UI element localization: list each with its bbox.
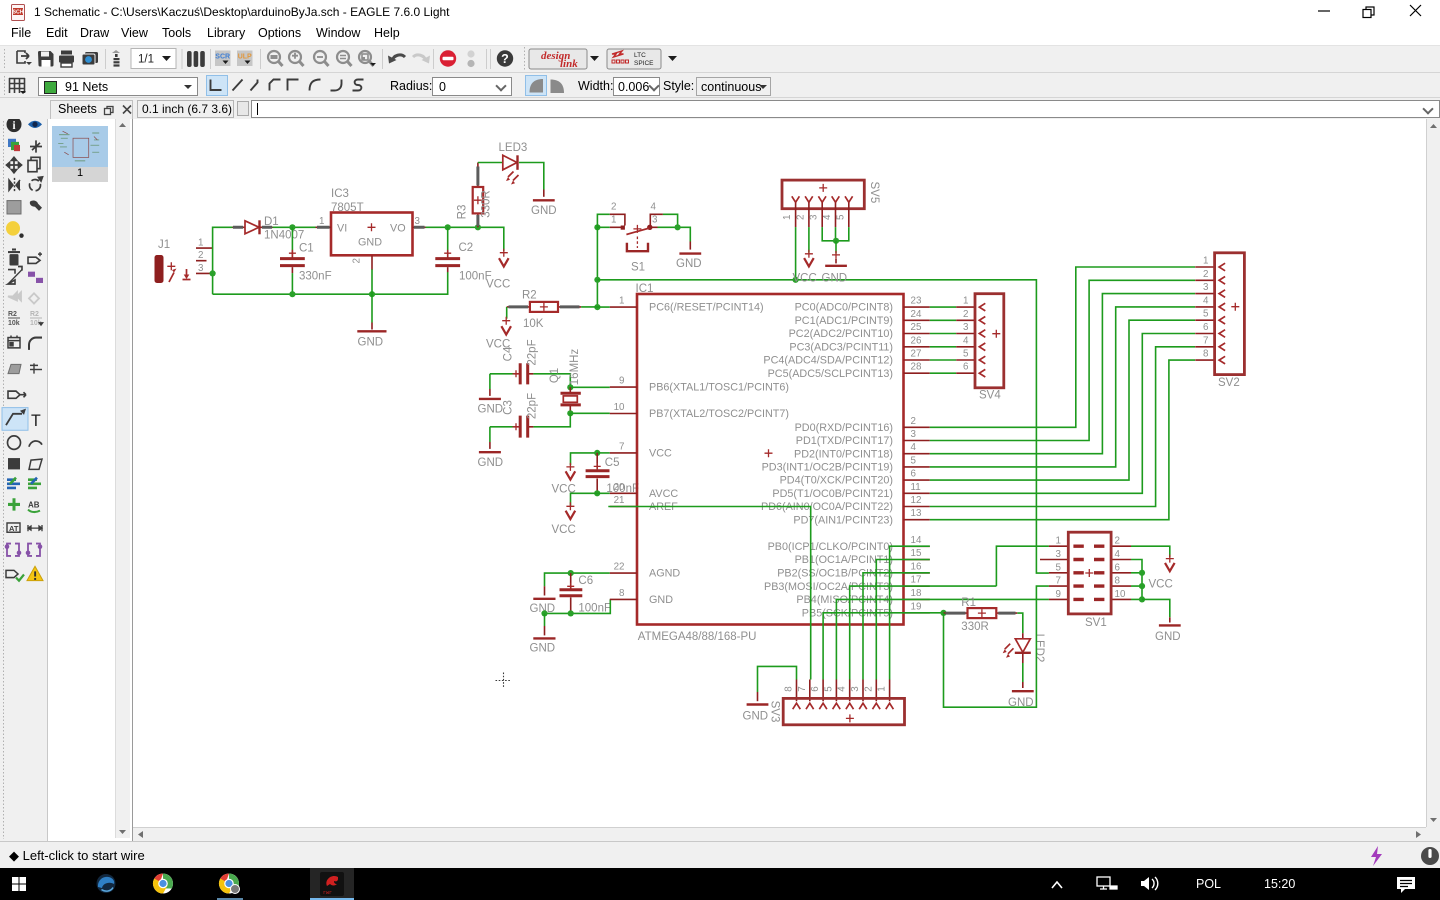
svg-text:SPICE: SPICE [634, 60, 654, 67]
svg-text:?: ? [501, 52, 509, 66]
node PB5/R1 junction [940, 610, 946, 616]
svg-text:8: 8 [1203, 349, 1209, 360]
grid icon [9, 78, 25, 93]
arc dir buttons [526, 76, 547, 96]
node AVCC junction [594, 490, 600, 496]
wire PD7 to SV2 pin8 [930, 360, 1195, 520]
svg-text:16MHz: 16MHz [569, 349, 581, 386]
svg-text:GND: GND [530, 643, 556, 655]
wire IC3 VO rail [426, 227, 504, 251]
wire R2 left down [506, 307, 508, 319]
svg-text:SV4: SV4 [979, 390, 1001, 402]
node C6 bottom junction [568, 610, 574, 616]
svg-text:GND: GND [478, 457, 504, 469]
wire PD3 to SV2 pin4 [930, 307, 1195, 467]
LED LED2 [1003, 633, 1045, 663]
wire SV5 pins 3-5 join [822, 227, 849, 241]
svg-text:R1: R1 [961, 597, 976, 609]
title bar [10, 4, 27, 21]
node C1 top junction [289, 224, 295, 230]
wire PB4 to SV1 pin9 and SV3 pin5 [836, 599, 1049, 679]
node R2 / IC1 pin1 junction [594, 304, 600, 310]
svg-text:GND: GND [743, 711, 769, 723]
svg-text:6: 6 [1115, 562, 1121, 573]
svg-text:R2: R2 [8, 310, 17, 318]
svg-text:1: 1 [619, 296, 624, 307]
svg-text:7: 7 [619, 441, 624, 452]
node SV5 gnd junction [833, 238, 839, 244]
stop [440, 50, 456, 66]
capacitor C5 100nF [586, 453, 639, 495]
svg-text:AGND: AGND [649, 568, 680, 580]
wire GND bus bottom [213, 272, 448, 294]
svg-text:LED3: LED3 [499, 142, 528, 154]
svg-text:9: 9 [619, 376, 624, 387]
ground left of C6 [530, 586, 556, 615]
svg-text:3: 3 [911, 429, 917, 440]
node AGND junction [568, 570, 574, 576]
wire PD0 to SV2 pin1 [930, 267, 1195, 427]
ground below C6 [530, 626, 556, 655]
svg-text:3: 3 [809, 214, 820, 220]
voltage regulator IC3 7805T [316, 188, 426, 270]
r11: tag, miter [8, 336, 20, 348]
supply VCC right of SV1 [1149, 555, 1175, 591]
svg-text:12: 12 [911, 495, 922, 506]
switch S1 (reset button) [597, 201, 662, 273]
svg-text:IC3: IC3 [331, 188, 349, 200]
svg-text:VI: VI [337, 222, 347, 234]
wire LED2 to GND [1022, 663, 1024, 682]
ground right of LED3 [531, 190, 557, 218]
svg-text:2: 2 [352, 258, 363, 263]
wire PD6 to SV2 pin7 [930, 347, 1195, 507]
svg-text:R2: R2 [522, 290, 537, 302]
LED LED3 [499, 142, 528, 185]
bend buttons [207, 76, 228, 96]
svg-text:8: 8 [619, 588, 625, 599]
svg-text:PD7(AIN1/PCINT23): PD7(AIN1/PCINT23) [793, 514, 893, 526]
svg-text:6: 6 [1203, 322, 1209, 333]
svg-text:AVCC: AVCC [649, 488, 678, 500]
svg-text:PC5(ADC5/SCLPCINT13): PC5(ADC5/SCLPCINT13) [768, 368, 893, 380]
svg-text:SV5: SV5 [868, 182, 880, 204]
svg-text:GND: GND [649, 594, 673, 606]
r8: resize, route [8, 267, 22, 285]
svg-text:5: 5 [963, 349, 969, 360]
svg-text:2: 2 [611, 201, 616, 212]
svg-text:14: 14 [911, 535, 922, 546]
svg-text:GND: GND [531, 205, 557, 217]
svg-text:LED2: LED2 [1033, 634, 1045, 663]
save [38, 51, 54, 67]
svg-text:22pF: 22pF [526, 339, 538, 365]
connector SV2 [1195, 253, 1244, 389]
svg-text:SV1: SV1 [1085, 617, 1107, 629]
image/camera [82, 52, 98, 65]
tray [1052, 882, 1062, 888]
node XTAL1 junction [567, 384, 573, 390]
1/1 combo [131, 49, 176, 69]
wire C4 to XTAL1 node [533, 374, 570, 388]
svg-text:330R: 330R [961, 621, 989, 633]
node SV1 pin10 junction [1139, 596, 1145, 602]
wire bus stub to GND symbol [371, 294, 373, 322]
svg-text:SCH: SCH [13, 10, 24, 16]
node C2 top junction [445, 224, 451, 230]
r10: R2 10k [8, 310, 44, 327]
svg-text:2: 2 [1115, 536, 1120, 547]
toolbar row 1 [0, 45, 1440, 73]
wire R1 to LED2 [1017, 613, 1023, 633]
node R3 bottom junction [475, 224, 481, 230]
icon2 edge-ish [97, 874, 116, 893]
svg-text:5: 5 [1056, 562, 1062, 573]
svg-text:10: 10 [1115, 589, 1126, 600]
zoom icons [268, 51, 374, 66]
cursor crosshair [496, 673, 512, 689]
supply VCC left of C5 [552, 463, 576, 495]
wire PD2 to SV2 pin3 [930, 294, 1195, 454]
r14: WIRE selected + text [2, 408, 28, 431]
svg-text:VCC: VCC [486, 278, 510, 290]
wire IC3 pin2 to bus [371, 269, 373, 294]
svg-text:VCC: VCC [649, 448, 672, 460]
r15: circle, arc [8, 436, 21, 449]
wire XTAL1 to IC1 pin9 [570, 386, 610, 388]
node XTAL2 junction [567, 410, 573, 416]
svg-text:10: 10 [614, 402, 625, 413]
svg-text:4: 4 [1203, 295, 1209, 306]
r16: rect, polygon [8, 458, 20, 469]
svg-text:PD2(INT0/PCINT18): PD2(INT0/PCINT18) [794, 448, 893, 460]
wire R3 top to LED3 [478, 162, 503, 164]
wire S1 right to GND [658, 214, 691, 241]
node pin7 junction [594, 450, 600, 456]
svg-text:4: 4 [911, 442, 917, 453]
svg-text:2: 2 [863, 686, 874, 691]
svg-text:8: 8 [784, 686, 795, 692]
r4: mirror, rotate [9, 178, 20, 192]
svg-text:SCR: SCR [215, 54, 230, 61]
svg-text:4: 4 [963, 335, 969, 346]
wire AGND branch [545, 573, 610, 586]
wire AREF to SV3 pin7 [608, 507, 810, 680]
wire PB3 to SV1 pin1 and SV3 pin4 [850, 546, 1049, 679]
node SV1 pin8 junction [1139, 583, 1145, 589]
svg-text:2: 2 [1203, 269, 1208, 280]
svg-text:R3: R3 [457, 205, 469, 220]
chrome 2 with badge [219, 873, 240, 893]
svg-text:PC0(ADC0/PCINT8): PC0(ADC0/PCINT8) [795, 302, 893, 314]
svg-text:2: 2 [963, 309, 968, 320]
svg-text:6: 6 [963, 362, 969, 373]
r20: purple brackets [6, 544, 42, 556]
svg-text:PB0(ICP1/CLKO/PCINT0): PB0(ICP1/CLKO/PCINT0) [768, 541, 893, 553]
svg-text:2: 2 [911, 416, 916, 427]
wire GND pin8 branch [545, 599, 611, 613]
svg-text:10K: 10K [523, 318, 544, 330]
design link btn [529, 49, 587, 69]
svg-text:1: 1 [1056, 536, 1061, 547]
wire R2 to IC1 pin1 [581, 306, 610, 308]
ground right of S1 [676, 242, 702, 271]
wire VCC pin7 branch [571, 453, 598, 465]
panel scrollbar [115, 119, 130, 838]
svg-text:27: 27 [911, 349, 922, 360]
wire RESET rail to SV1 pin5 [597, 280, 1049, 573]
supply VCC below C2 rail [486, 249, 510, 291]
diode D1 1N4007 [233, 216, 305, 242]
svg-text:5: 5 [835, 214, 846, 220]
svg-text:R2: R2 [30, 310, 39, 318]
svg-text:GND: GND [822, 273, 848, 285]
supply VCC below SV5 [793, 250, 817, 285]
ground below SV5 [822, 251, 848, 285]
wire PB5 to R1 and SV3 pin6 [823, 613, 943, 680]
capacitor C6 100nF [560, 573, 612, 614]
svg-text:23: 23 [911, 296, 922, 307]
svg-text:C2: C2 [459, 242, 474, 254]
node RESET rail junction [594, 277, 600, 283]
svg-text:4: 4 [651, 201, 657, 212]
svg-text:PC4(ADC4/SDA/PCINT12): PC4(ADC4/SDA/PCINT12) [763, 355, 893, 367]
svg-text:ULP: ULP [238, 54, 252, 61]
svg-text:1: 1 [198, 238, 203, 249]
svg-text:2: 2 [198, 250, 203, 261]
wire SV1 pin2 to VCC [1131, 546, 1170, 557]
ground below SV1 [1155, 617, 1181, 643]
svg-text:PD1(TXD/PCINT17): PD1(TXD/PCINT17) [796, 435, 893, 447]
ground below C4 [478, 389, 504, 416]
node IC3 GND junction [369, 291, 375, 297]
svg-text:POL: POL [1196, 877, 1221, 891]
supply VCC below AVCC branch [552, 502, 576, 536]
wire PD5 to SV2 pin6 [930, 334, 1195, 494]
svg-text:3: 3 [415, 216, 421, 227]
svg-text:4: 4 [837, 686, 848, 692]
IC U1 ATMEGA48/88/168-PU [610, 283, 930, 643]
svg-text:22: 22 [614, 562, 625, 573]
svg-text:ATMEGA48/88/168-PU: ATMEGA48/88/168-PU [638, 631, 757, 643]
svg-text:1: 1 [963, 296, 968, 307]
svg-text:3: 3 [850, 686, 861, 692]
menu bar [0, 26, 1440, 45]
svg-text:D1: D1 [264, 216, 279, 228]
r1: info, eye [7, 117, 22, 132]
svg-text:1/1: 1/1 [138, 54, 154, 66]
svg-text:7: 7 [1056, 576, 1061, 587]
svg-text:15: 15 [911, 548, 922, 559]
svg-text:AB: AB [28, 500, 40, 509]
svg-text:PD0(RXD/PCINT16): PD0(RXD/PCINT16) [795, 422, 893, 434]
node SV1 pin6 junction [1139, 570, 1145, 576]
wire VIN from J1 to D1 [213, 227, 233, 294]
wire pin7 stub link [597, 452, 610, 454]
r5: rect gray, wrench [7, 201, 21, 214]
wire PB1 to SV3 pin2 [876, 560, 930, 680]
wire SV1 pin7 loop to R1 node [944, 586, 1049, 707]
r12: polygon, dim [8, 364, 21, 373]
svg-text:GND: GND [358, 237, 382, 249]
r9: faded pair [8, 292, 39, 303]
connector SV5 [782, 180, 880, 227]
wire junction to GND [835, 241, 837, 254]
svg-text:PC1(ADC1/PCINT9): PC1(ADC1/PCINT9) [795, 315, 893, 327]
svg-text:PC3(ADC3/PCINT11): PC3(ADC3/PCINT11) [789, 341, 893, 353]
LTC spice btn [607, 49, 661, 69]
connector SV1 [1040, 532, 1131, 629]
svg-text:VCC: VCC [552, 524, 576, 536]
svg-text:S1: S1 [631, 262, 645, 274]
r3: move, copy [7, 157, 22, 172]
svg-text:6: 6 [810, 686, 821, 692]
svg-text:4: 4 [822, 214, 833, 220]
chrome [153, 873, 173, 893]
svg-text:3: 3 [1203, 282, 1209, 293]
toolbar row 3 [0, 98, 1440, 119]
svg-text:3: 3 [198, 263, 204, 274]
node SV5 pin1 junction [793, 277, 799, 283]
svg-text:330R: 330R [481, 190, 493, 218]
capacitor C1 330nF [280, 227, 332, 294]
svg-text:PB6(XTAL1/TOSC1/PCINT6): PB6(XTAL1/TOSC1/PCINT6) [649, 382, 789, 394]
svg-text:VCC: VCC [793, 273, 817, 285]
node J1 pin3 junction [210, 270, 216, 276]
node GND branch junction [541, 610, 547, 616]
wire SV1 pins4/6/8/10 chain [1131, 560, 1142, 600]
wire PD4 to SV2 pin5 [930, 320, 1195, 480]
svg-text:20: 20 [614, 482, 625, 493]
svg-text:PC6(/RESET/PCINT14): PC6(/RESET/PCINT14) [649, 302, 764, 314]
svg-text:3: 3 [1056, 549, 1062, 560]
svg-text:PD3(INT1/OC2B/PCINT19): PD3(INT1/OC2B/PCINT19) [762, 462, 893, 474]
wire C3 left to GND [489, 427, 491, 442]
capacitor C3 22pF [490, 393, 538, 438]
ground below LED2 [1008, 682, 1034, 709]
node S1 left junction [594, 224, 600, 230]
svg-text:SV2: SV2 [1218, 377, 1240, 389]
wire XTAL2 to IC1 pin10 [570, 412, 610, 414]
svg-text:6: 6 [911, 469, 917, 480]
r13: plug arrow [8, 391, 26, 398]
r2: layers, origin [8, 139, 16, 147]
svg-text:5: 5 [1203, 309, 1209, 320]
svg-text:PC2(ADC2/PCINT10): PC2(ADC2/PCINT10) [789, 328, 893, 340]
svg-text:7: 7 [1203, 335, 1208, 346]
wire D1 to IC3 VI [273, 226, 316, 228]
svg-text:28: 28 [911, 362, 922, 373]
connector SV4 [956, 294, 1004, 402]
thumbnail [52, 126, 108, 167]
svg-text:1: 1 [319, 216, 324, 227]
r17: bus, net [7, 478, 20, 488]
svg-text:LTC: LTC [634, 52, 646, 59]
r21: erc, warning [6, 570, 24, 580]
svg-text:1: 1 [1203, 256, 1208, 267]
svg-text:13: 13 [911, 508, 922, 519]
svg-text:26: 26 [911, 335, 922, 346]
svg-text:GND: GND [1155, 631, 1181, 643]
svg-text:C1: C1 [299, 243, 314, 255]
start [12, 877, 26, 891]
wire XTAL2 to C3 [533, 413, 570, 427]
svg-text:T: T [31, 412, 41, 430]
svg-text:19: 19 [911, 601, 922, 612]
r19: attribute, measure [7, 523, 20, 533]
svg-text:21: 21 [614, 495, 625, 506]
dots [467, 50, 474, 57]
svg-text:18: 18 [911, 588, 922, 599]
svg-text:PD5(T1/OC0B/PCINT21): PD5(T1/OC0B/PCINT21) [772, 488, 893, 500]
svg-text:9: 9 [1056, 589, 1061, 600]
svg-text:1: 1 [782, 215, 793, 220]
node C1 bottom junction [289, 291, 295, 297]
svg-text:10k: 10k [8, 319, 20, 327]
wire PC0-PC5 to SV4 [930, 307, 956, 373]
supply VCC below R2 [486, 317, 511, 351]
capacitor C2 100nF [435, 227, 491, 282]
ULP [237, 51, 253, 67]
svg-text:8: 8 [1115, 576, 1121, 587]
drill/layer stack icon [112, 50, 120, 67]
ground below IC3 [357, 323, 386, 349]
capacitor C4 22pF [490, 339, 538, 384]
svg-text:AT: AT [9, 524, 19, 533]
svg-text:3: 3 [963, 322, 969, 333]
wire to lower ground [544, 613, 546, 626]
svg-text:1: 1 [611, 215, 616, 226]
resistor R2 10K [507, 290, 581, 331]
svg-text:VO: VO [390, 222, 406, 234]
svg-text:5: 5 [823, 686, 834, 692]
print [59, 51, 74, 68]
svg-text:3: 3 [652, 215, 658, 226]
toolbar row 2 [0, 73, 1440, 98]
open [17, 51, 32, 65]
r7: trash, pinswap [8, 248, 20, 265]
crystal Q1 16MHz [549, 349, 581, 414]
undo / redo [392, 55, 405, 61]
r18: junction, label [8, 498, 20, 510]
svg-text:C4: C4 [502, 346, 514, 361]
svg-text:C6: C6 [578, 575, 593, 587]
ground left of SV3 [743, 692, 769, 723]
svg-text:17: 17 [911, 575, 922, 586]
svg-text:VCC: VCC [1149, 578, 1173, 590]
wire PD1 to SV2 pin2 [930, 280, 1195, 440]
svg-text:11: 11 [911, 482, 921, 493]
3 bars [187, 51, 205, 67]
eagle icon [320, 872, 344, 896]
svg-text:i: i [12, 120, 15, 132]
svg-text:330nF: 330nF [299, 271, 332, 283]
svg-text:C3: C3 [502, 400, 514, 415]
wire PB2 to SV3 pin3 [863, 573, 930, 680]
wire pin10 to GND [1142, 599, 1170, 617]
wire SV3 pin8 to GND [758, 666, 797, 692]
wire AVCC branch [571, 493, 610, 505]
svg-text:4: 4 [1115, 549, 1121, 560]
connector J1 (DC jack) [155, 238, 214, 283]
svg-text:PD4(T0/XCK/PCINT20): PD4(T0/XCK/PCINT20) [780, 475, 893, 487]
wire SV5 pin2 down [808, 227, 810, 253]
connector SV3 [769, 680, 905, 725]
svg-text:22pF: 22pF [526, 393, 538, 419]
resistor R1 330R [944, 597, 1018, 633]
svg-text:1N4007: 1N4007 [264, 230, 304, 242]
svg-text:GND: GND [478, 404, 504, 416]
